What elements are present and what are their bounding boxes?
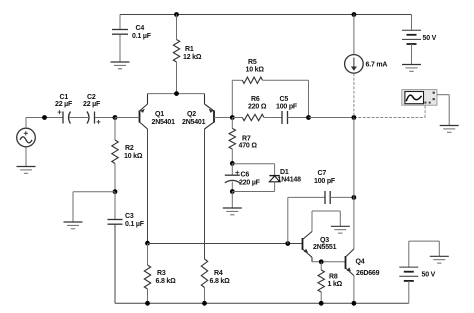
capacitor C6 <box>225 171 240 183</box>
node R2/C3/ground junction <box>113 189 118 194</box>
node R2 junction <box>113 115 118 120</box>
transistor Q2 <box>205 94 233 129</box>
svg-text:R4: R4 <box>214 270 223 277</box>
node C7 right junction <box>352 195 357 200</box>
wire R8 top lead <box>320 262 322 270</box>
wire R1 bottom lead <box>176 62 178 94</box>
transistor Q1 <box>115 94 148 129</box>
ground above battery V3 <box>430 256 449 263</box>
current source I1 <box>345 55 364 74</box>
capacitor C1 <box>58 110 71 123</box>
resistor R6 <box>242 114 264 120</box>
wire C4 top lead <box>119 15 121 30</box>
svg-text:R2: R2 <box>125 145 134 152</box>
wire C7 row right <box>330 196 354 198</box>
ground below C6 <box>223 208 242 215</box>
wire R8 bottom lead <box>320 292 322 303</box>
wire R6 to C5 <box>264 117 282 119</box>
wire bottom ground rail <box>115 302 409 304</box>
ground below C4 <box>111 62 130 69</box>
wire output row <box>309 117 354 119</box>
svg-text:12 kΩ: 12 kΩ <box>183 54 202 61</box>
svg-text:6.8 kΩ: 6.8 kΩ <box>210 278 231 285</box>
wire Q1 collector <box>147 129 149 243</box>
capacitor C5 <box>282 111 288 124</box>
wire R5 left leg <box>232 80 242 117</box>
diode D1 <box>269 176 279 182</box>
transistor Q4 <box>346 249 354 276</box>
svg-text:1N4148: 1N4148 <box>278 177 302 184</box>
node R3 top junction <box>145 241 150 246</box>
wire to left ground <box>73 192 115 222</box>
ground below battery V2 <box>402 65 421 72</box>
ground at Q3 collector <box>331 226 350 233</box>
capacitor C7 <box>325 191 330 204</box>
wire C6 top lead <box>231 163 233 174</box>
wire D1 top link <box>232 164 274 176</box>
svg-text:C2: C2 <box>87 94 96 101</box>
svg-text:470 Ω: 470 Ω <box>239 143 258 150</box>
label D1 value <box>278 169 302 184</box>
label C4 value <box>132 25 152 40</box>
label battery V2 value <box>423 35 437 42</box>
resistor R3 <box>144 265 150 289</box>
node C5 right junction <box>306 115 311 120</box>
svg-text:220 Ω: 220 Ω <box>248 104 267 111</box>
node Q4 emitter junction <box>352 301 357 306</box>
label R6 value <box>248 96 267 111</box>
battery V2 50V top <box>402 30 421 44</box>
wire C4 bottom lead <box>119 35 121 62</box>
capacitor C4 <box>112 30 128 35</box>
wire R3 node to Q3 base <box>148 243 303 245</box>
svg-text:2N5401: 2N5401 <box>152 119 176 126</box>
wire C1-C2 link <box>69 117 88 119</box>
svg-text:2N5551: 2N5551 <box>313 244 337 251</box>
svg-text:10 kΩ: 10 kΩ <box>246 67 265 74</box>
svg-text:R8: R8 <box>329 274 338 281</box>
wire scope probe <box>424 105 426 117</box>
svg-text:100 pF: 100 pF <box>276 104 298 111</box>
svg-text:C5: C5 <box>280 96 289 103</box>
wire Q3 base to C7 <box>287 197 289 243</box>
svg-text:6.8 kΩ: 6.8 kΩ <box>156 278 177 285</box>
svg-text:R3: R3 <box>157 270 166 277</box>
node R6/R7/Q2 junction <box>230 115 235 120</box>
svg-text:0.1 µF: 0.1 µF <box>132 33 152 40</box>
node Q3 base junction <box>285 241 290 246</box>
svg-text:0.1 µF: 0.1 µF <box>125 221 145 228</box>
wire C6 node to ground <box>231 192 233 208</box>
node R3 bottom junction <box>145 301 150 306</box>
svg-text:6.7 mA: 6.7 mA <box>366 62 388 69</box>
wire scope ground lead <box>437 95 449 126</box>
wire source bottom lead <box>25 147 27 166</box>
wire C7 row left <box>288 196 325 198</box>
label C1 value <box>55 94 73 108</box>
node input junction <box>42 115 47 120</box>
wire R2 top lead <box>114 118 116 141</box>
svg-text:100 pF: 100 pF <box>314 178 336 185</box>
wire top rail to battery <box>411 15 413 31</box>
svg-text:Q1: Q1 <box>155 111 164 118</box>
wire R7 top lead <box>231 118 233 129</box>
label Q3 <box>313 237 337 251</box>
wire R4 bottom lead <box>204 288 206 304</box>
wire Q3 emitter to Q4 base <box>312 261 346 263</box>
node emitter junction <box>174 91 179 96</box>
wire current source bottom lead <box>353 73 355 117</box>
battery V3 50V bottom <box>399 267 418 281</box>
wire output node down to C7 node <box>353 118 355 198</box>
label Q2 <box>182 111 206 126</box>
wire before R6 <box>232 117 242 119</box>
label battery V3 value <box>422 272 436 279</box>
node C6/D1 bottom junction <box>230 189 235 194</box>
wire C7 node down to Q4 collector <box>353 197 355 249</box>
wire top supply rail <box>120 14 412 16</box>
wire Q4 emitter down <box>353 276 355 304</box>
wire C6 bottom lead <box>231 182 233 192</box>
wire battery V3 top lead <box>409 241 440 267</box>
label C5 value <box>276 96 298 111</box>
svg-text:C3: C3 <box>125 213 134 220</box>
wire C3 bottom lead <box>114 225 116 304</box>
node top rail / current source junction <box>352 12 357 17</box>
label C3 value <box>125 213 145 228</box>
node output/current source junction <box>352 115 357 120</box>
capacitor C2 <box>87 112 101 124</box>
wire R2 bottom lead <box>114 164 116 192</box>
resistor R7 <box>229 128 235 149</box>
ac source V1 <box>17 128 36 147</box>
svg-text:C1: C1 <box>60 94 69 101</box>
svg-text:Q4: Q4 <box>356 259 365 266</box>
resistor R1 <box>173 40 179 63</box>
svg-text:22 µF: 22 µF <box>83 101 101 108</box>
svg-text:220 µF: 220 µF <box>239 180 261 187</box>
label C6 value <box>239 172 261 187</box>
svg-text:C6: C6 <box>241 172 250 179</box>
wire R3 bottom lead <box>147 289 149 303</box>
label R3 value <box>156 270 177 285</box>
wire R5 right leg <box>263 80 309 117</box>
wire R1 top lead <box>176 15 178 40</box>
label Q1 <box>152 111 176 126</box>
wire emitter bracket <box>148 93 205 95</box>
svg-text:D1: D1 <box>280 169 289 176</box>
node R7/C6/D1 junction <box>230 161 235 166</box>
wire C5 to node <box>288 117 309 119</box>
label R1 value <box>183 46 202 61</box>
svg-text:26D669: 26D669 <box>356 270 380 277</box>
wire source top lead <box>26 118 63 129</box>
label Q4 <box>356 259 380 277</box>
ground right of scope <box>440 126 459 133</box>
svg-text:50 V: 50 V <box>422 272 436 279</box>
svg-text:C7: C7 <box>318 170 327 177</box>
wire R3 top lead <box>147 243 149 265</box>
label R7 value <box>239 136 258 150</box>
svg-text:10 kΩ: 10 kΩ <box>124 153 143 160</box>
resistor R5 <box>242 77 262 83</box>
wire Q2 collector <box>204 129 206 259</box>
wire C3 top lead <box>114 192 116 219</box>
oscilloscope XSC1 <box>402 90 437 106</box>
svg-text:1 kΩ: 1 kΩ <box>328 281 343 288</box>
resistor R4 <box>201 259 207 288</box>
wire output to scope <box>354 117 425 119</box>
transistor Q3 <box>303 232 313 262</box>
svg-text:Q2: Q2 <box>187 111 196 118</box>
svg-text:R6: R6 <box>251 96 260 103</box>
label R8 value <box>328 274 343 289</box>
node R8 bottom junction <box>319 301 324 306</box>
wire R7 bottom lead <box>231 149 233 163</box>
svg-text:R5: R5 <box>248 59 257 66</box>
label R2 value <box>124 145 143 160</box>
wire battery V2 to ground <box>411 44 413 64</box>
resistor R8 <box>318 270 324 292</box>
node R4 bottom junction <box>202 301 207 306</box>
ground below source <box>17 167 36 174</box>
label current source value <box>366 62 388 69</box>
svg-text:R1: R1 <box>185 46 194 53</box>
svg-text:Q3: Q3 <box>320 237 329 244</box>
resistor R2 <box>112 140 118 164</box>
ground left of R2 <box>64 222 83 229</box>
svg-text:50 V: 50 V <box>423 35 437 42</box>
label R4 value <box>210 270 231 285</box>
wire D1 bottom link <box>232 182 274 192</box>
wire C2 to Q1 base <box>95 117 140 119</box>
node top rail / R1 junction <box>174 12 179 17</box>
wire Q3 collector link <box>312 211 340 226</box>
capacitor C3 <box>108 220 123 225</box>
label C2 value <box>83 94 101 108</box>
label R5 value <box>246 59 265 74</box>
node R8 junction <box>319 259 324 264</box>
svg-text:C4: C4 <box>136 25 145 32</box>
wire Q3 collector up <box>311 211 313 232</box>
svg-text:22 µF: 22 µF <box>55 101 73 108</box>
wire battery V3 bottom lead <box>408 281 410 303</box>
svg-text:2N5401: 2N5401 <box>182 119 206 126</box>
wire current source top lead <box>353 15 355 55</box>
svg-text:R7: R7 <box>242 136 251 143</box>
label C7 value <box>314 170 336 185</box>
